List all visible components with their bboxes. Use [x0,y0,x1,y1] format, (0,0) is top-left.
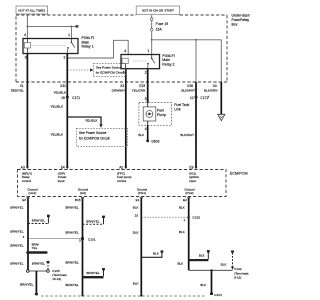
svg-text:BRN/YEL: BRN/YEL [65,231,78,235]
svg-text:2: 2 [63,56,65,60]
svg-text:3: 3 [79,239,81,243]
svg-text:BRN/YEL: BRN/YEL [10,261,23,265]
svg-text:YEL/BLK: YEL/BLK [53,90,66,94]
svg-text:2: 2 [145,70,147,74]
wire C105 dashed stub up [47,263,49,269]
node junction dot B15 at boundary [81,294,83,296]
node junction dot X31 branch [66,116,68,118]
svg-text:3: 3 [25,56,27,60]
node ECM pin E1 cap [140,197,143,198]
node See Power Source note box 1 [94,63,126,76]
wire X31 relay1 pin2 down to ECM E4 [66,54,68,168]
svg-text:E1: E1 [136,198,140,202]
wire X1 relay1 pin3 down to ECM A3 [26,54,28,168]
node junction dot E3 C101 link [27,238,29,240]
ground G603 [146,139,149,142]
fuel tank unit dashed box [139,103,172,126]
svg-text:C101: C101 [88,237,96,241]
svg-text:input: input [189,179,196,183]
svg-text:BLK: BLK [221,262,227,266]
relay2 coil [122,58,128,63]
svg-text:See Power Source: See Power Source [79,131,107,135]
wire below C105 to bottom [35,271,37,293]
svg-text:BRN/YEL: BRN/YEL [65,283,78,287]
svg-text:BLK: BLK [179,206,185,210]
svg-text:Unit: Unit [174,108,180,112]
under-dash fuse/relay box (dashed enclosure) [16,15,227,82]
wire E15 relay2 pin2 down to fuel pump [147,69,149,103]
svg-text:C132: C132 [192,215,200,219]
node arrowhead ECM pin A3 [26,167,29,170]
wire X3 relay2 pin3 down to ECM A2 [125,69,127,168]
svg-text:16-19): 16-19) [52,277,61,281]
svg-text:X1: X1 [20,84,24,88]
svg-text:BLK/WHT: BLK/WHT [181,89,195,93]
svg-text:for ECM/PCM Circuit: for ECM/PCM Circuit [79,137,110,141]
svg-text:HOT AT ALL TIMES: HOT AT ALL TIMES [18,8,45,12]
svg-text:X4: X4 [213,84,217,88]
node splice bar E2 with stub [189,250,210,261]
node splice bar B15 run with stub [83,268,105,278]
wire relay1 pin2 to relay2 pin4 [67,40,128,58]
svg-text:BLK: BLK [153,252,159,256]
node BRN/YEL two line label [32,242,39,250]
wire bus to relay1 pin1 [27,25,75,27]
svg-text:Fuel: Fuel [157,108,164,112]
node ECM function label IGP power input [58,171,67,182]
svg-text:E9: E9 [189,165,193,169]
svg-text:E4: E4 [61,165,65,169]
wire E2 ground run [188,198,190,270]
svg-text:BLK: BLK [133,282,139,286]
svg-text:YEL/BLK: YEL/BLK [85,119,98,123]
wire ground drop to G101 [211,270,213,292]
node relay1 name label [82,36,95,48]
node splice bar E3 run [26,251,47,254]
svg-text:(G2): (G2) [80,191,86,195]
svg-text:YEL: YEL [32,246,38,250]
svg-text:input: input [58,179,65,183]
svg-text:Fuel Tank: Fuel Tank [174,103,189,107]
wire X38 down to ECM E9 [195,82,197,168]
node junction dot relay1 pin1 [71,26,73,28]
svg-text:E3: E3 [22,198,26,202]
svg-text:23: 23 [135,213,139,217]
wire fuel pump to ground [147,125,149,139]
fuse F19 Fuse 19 15A [150,15,168,55]
svg-text:BRN/YEL: BRN/YEL [10,206,23,210]
node ECM ground label PG1 [137,188,148,195]
wire page boundary dashed bottom [41,295,206,297]
svg-text:X31: X31 [60,84,66,88]
svg-text:BRN/YEL: BRN/YEL [10,229,23,233]
relay1 link line [32,44,67,46]
connector C171 pin 18 [61,96,80,100]
svg-text:E15: E15 [139,84,145,88]
node ECM function label MRLY relay control [22,171,32,182]
node ECM ground label PG2 [184,188,195,195]
svg-text:4: 4 [24,33,26,37]
svg-text:1: 1 [183,218,185,222]
wire dashed stub from C132 cap [221,250,234,269]
svg-text:for ECM/PCM Circuit: for ECM/PCM Circuit [96,71,125,75]
node HOT IN ON OR START label box [136,6,180,14]
node arrowhead ECM pin E4 [66,167,69,170]
wire C105 bridge [29,270,47,272]
svg-text:BLK: BLK [133,231,139,235]
connector C105 pin circle left [26,270,29,273]
node Under-dash Fuse/Relay Box label [232,14,250,27]
svg-text:(PG1): (PG1) [138,191,146,195]
svg-text:4: 4 [145,127,147,131]
node junction dot fuse output [151,39,153,41]
svg-text:BLK: BLK [179,230,185,234]
svg-text:Under-dash: Under-dash [232,14,250,18]
svg-text:BLK: BLK [200,283,206,287]
node ECM ground label LG1 [27,188,38,195]
svg-text:C171: C171 [72,96,80,100]
node junction dot ground drop [210,269,212,271]
svg-text:See Power Source: See Power Source [96,66,122,70]
node ECM pin B15 cap [81,197,84,198]
svg-text:Box: Box [232,22,238,26]
relay2 switch [151,55,153,59]
relay1 coil [26,39,28,43]
node arrowhead ECM pin E9 [195,167,198,170]
node ECM pin E3 cap [26,197,29,198]
svg-text:BRN/YEL: BRN/YEL [20,283,33,287]
node continuation arrow (open triangle) [218,114,225,120]
wire drop to X38 [195,40,197,82]
svg-text:YEL/GRN: YEL/GRN [132,89,146,93]
svg-text:YEL/BLK: YEL/BLK [50,105,63,109]
node junction dot E1 at boundary [140,294,142,296]
node Fuel Tank Unit label [174,103,189,111]
connector C171 pin 12 [190,96,208,100]
wire B15 dashed stub to terminal [83,216,105,225]
node ECM function label IG1 ignition input [189,171,199,182]
svg-text:Fuse/Relay: Fuse/Relay [232,18,250,22]
svg-text:BLK/WHT: BLK/WHT [180,133,194,137]
wire E3 ground run [27,198,29,270]
svg-text:1: 1 [147,49,149,53]
svg-text:control: control [117,179,127,183]
svg-text:C171: C171 [200,96,208,100]
svg-text:1: 1 [68,33,70,37]
wire drop to relay1 pin1 [70,26,72,38]
node ECM pin E2 cap [187,197,190,198]
svg-text:BLK: BLK [177,262,183,266]
relay K2 PGM-FI Main Relay 2 [121,49,160,74]
svg-text:BRN/YEL: BRN/YEL [32,219,45,223]
svg-text:(PG2): (PG2) [185,191,193,195]
node junction dot relay1 pin2 tee [66,57,68,59]
wire E1 stub right [140,250,163,258]
svg-text:(LG1): (LG1) [29,191,37,195]
node See Power Source note box 2 [76,128,127,146]
wire branch to power source note [67,117,101,124]
wire hot bus to relay1 pin4 [26,15,28,39]
svg-text:BLK/GRN: BLK/GRN [204,89,218,93]
node C132 terminals label [234,267,249,279]
svg-text:8-12): 8-12) [234,276,241,280]
svg-text:BRN/YEL: BRN/YEL [65,206,78,210]
svg-text:control: control [22,179,32,183]
node arrowhead ECM pin A2 [124,167,127,170]
node arrowhead into note box 1 [90,68,93,71]
wire X4 down to continuation arrow [220,82,222,114]
wire dashed C132 link E1 to E2 [141,216,188,218]
svg-text:A2: A2 [119,165,123,169]
svg-text:15A: 15A [156,28,163,32]
svg-text:G101: G101 [214,293,222,297]
svg-text:BRN/YEL: BRN/YEL [32,262,45,266]
node ECM function label FPC fuel pump control [117,171,132,182]
svg-text:BLK: BLK [199,253,205,257]
node arrowhead into fuel tank unit [146,100,149,103]
node junction dot relay1 feed [27,26,29,28]
node C105 label [52,269,67,281]
wire leader to note box 1 [67,69,90,71]
svg-text:4: 4 [124,49,126,53]
wire E3 dashed stub to terminal [28,215,50,224]
svg-text:18: 18 [61,96,65,100]
svg-text:HOT IN ON OR START: HOT IN ON OR START [142,9,174,13]
svg-text:B15: B15 [75,198,81,202]
wire fuse bus right [152,40,222,82]
svg-text:Relay 2: Relay 2 [162,62,174,66]
relay K1 PGM-FI Main Relay 1 [23,33,78,60]
svg-text:E2: E2 [183,198,187,202]
svg-text:4: 4 [23,235,25,239]
svg-text:GRN/WHT: GRN/WHT [112,89,127,93]
relay2 link line [133,60,147,62]
svg-text:Relay 1: Relay 1 [82,45,94,49]
svg-text:G603: G603 [151,139,159,143]
wire E1 ground run [140,198,142,295]
wire B15 ground run [82,198,84,295]
node junction dot C132 link [188,216,190,218]
motor M1 fuel pump [143,103,166,126]
svg-text:RED/YEL: RED/YEL [11,89,24,93]
svg-text:YEL/BLK: YEL/BLK [50,132,63,136]
node ECM ground label G2 [78,188,89,195]
svg-text:BLK: BLK [138,133,144,137]
svg-text:Fuse 19: Fuse 19 [156,22,169,26]
svg-text:A3: A3 [21,165,25,169]
node HOT AT ALL TIMES label box [16,6,48,14]
relay1 switch [70,39,72,43]
node junction dot X38 feed [195,39,197,41]
ECM/PCM dashed box [18,170,227,197]
svg-text:X3: X3 [120,84,124,88]
connector C101 blob [81,237,84,240]
svg-text:BRN/YEL: BRN/YEL [65,260,78,264]
svg-text:ECM/PCM: ECM/PCM [230,171,248,175]
svg-text:BLK: BLK [133,206,139,210]
svg-text:BRN/YEL: BRN/YEL [86,219,99,223]
svg-text:BRN/YEL: BRN/YEL [10,244,23,248]
svg-text:X38: X38 [187,84,193,88]
node terminal square end of bus [76,25,79,28]
node arrowhead into power source note [99,124,102,127]
connector C105 pin circle right [47,270,50,273]
svg-text:Pump: Pump [157,113,166,117]
svg-text:BRN/YEL: BRN/YEL [87,271,100,275]
wire link E3 to B15 via C101 [28,238,83,240]
svg-text:12: 12 [190,96,194,100]
node relay2 name label [162,54,175,66]
